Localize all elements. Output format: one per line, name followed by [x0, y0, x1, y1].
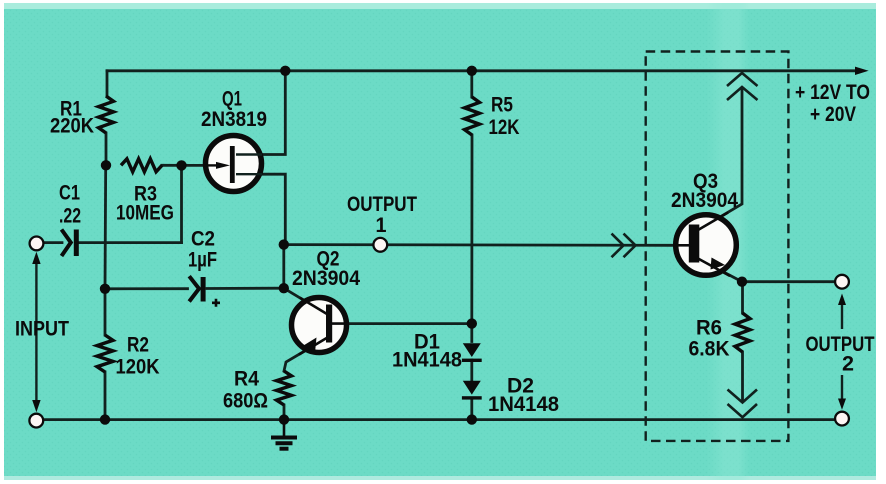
wire C2 right lead — [207, 287, 284, 290]
ground — [271, 420, 297, 449]
wire R1 top lead from rail — [106, 71, 109, 96]
resistor R3 — [116, 159, 174, 225]
svg-text:220K: 220K — [50, 115, 94, 138]
node top rail R5 — [467, 66, 477, 76]
svg-text:INPUT: INPUT — [15, 318, 69, 341]
svg-text:R6: R6 — [696, 317, 722, 340]
wire output1 run to Q3 base — [284, 243, 674, 246]
terminal input top — [30, 237, 44, 251]
chevrons up collector riser — [727, 73, 758, 100]
svg-text:C2: C2 — [191, 228, 215, 251]
svg-text:6.8K: 6.8K — [689, 338, 730, 361]
transistor Q1 2N3819 — [201, 88, 267, 192]
diode D1 1N4148 — [392, 331, 482, 372]
svg-text:2N3819: 2N3819 — [201, 108, 267, 131]
chevrons signal to Q3 — [612, 234, 636, 258]
supply arrow — [855, 67, 869, 75]
svg-text:R4: R4 — [234, 368, 259, 391]
resistor R4 — [223, 368, 292, 413]
svg-text:R5: R5 — [491, 94, 513, 117]
wire R6 top lead — [741, 282, 744, 313]
node Q2 base — [279, 283, 289, 293]
node Q2 collector D1 — [467, 318, 477, 328]
node D2 ground rail — [467, 414, 477, 424]
svg-text:2N3904: 2N3904 — [292, 267, 360, 290]
wire Q2 collector to diode node — [332, 322, 472, 325]
svg-text:1N4148: 1N4148 — [488, 393, 559, 416]
wire C1 input lead — [44, 241, 63, 244]
capacitor C1 — [59, 182, 81, 257]
node output1 — [279, 239, 289, 249]
wire Q2 emitter to R4 — [284, 336, 330, 371]
resistor R1 — [50, 96, 114, 138]
node R2 ground rail — [100, 414, 110, 424]
svg-text:1µF: 1µF — [188, 249, 217, 272]
svg-text:+ 20V: + 20V — [810, 103, 856, 126]
dashed enclosure — [646, 52, 789, 441]
transistor Q3 2N3904 — [671, 170, 738, 276]
wire Q3 emitter to node — [699, 259, 742, 282]
svg-text:12K: 12K — [489, 116, 520, 139]
wire Q1 source lead down to output1 node — [236, 174, 285, 244]
wire gate branch vertical — [180, 165, 183, 242]
wire D2 to ground rail — [470, 399, 473, 420]
transistor Q2 2N3904 — [292, 248, 361, 355]
wire bottom ground rail — [43, 418, 836, 421]
resistor R2 — [97, 334, 160, 379]
wire C1 to gate branch — [79, 241, 182, 244]
svg-text:680Ω: 680Ω — [223, 390, 268, 413]
chevrons down R6 — [728, 390, 758, 418]
resistor R5 — [465, 94, 520, 140]
wire D1 to D2 — [470, 360, 473, 381]
wire R4 bottom to ground rail — [283, 405, 286, 420]
wire R2 bottom to ground rail — [104, 372, 107, 420]
svg-text:C1: C1 — [59, 182, 80, 205]
output2 span arrow — [806, 294, 875, 410]
svg-text:2N3904: 2N3904 — [671, 189, 738, 212]
terminal input bottom — [29, 414, 43, 428]
wire node R1R3 down to C2 node — [104, 165, 107, 288]
terminal output2 top — [835, 275, 849, 289]
wire C2 left lead — [105, 287, 188, 290]
svg-text:1N4148: 1N4148 — [392, 349, 462, 372]
wire output1 node down to C2 node — [282, 245, 285, 289]
wire Q3 collector riser — [699, 89, 742, 230]
svg-text:R2: R2 — [127, 334, 149, 357]
wire R5 top lead — [470, 71, 473, 97]
capacitor C2 — [188, 228, 220, 307]
node R4 ground rail — [279, 414, 289, 424]
input span arrow — [15, 252, 69, 412]
wire R1 bottom lead to node — [105, 133, 108, 165]
terminal output2 bottom — [835, 412, 849, 426]
node R1 R3 — [101, 160, 111, 170]
node C2 left — [100, 284, 110, 294]
node gate — [176, 160, 186, 170]
resistor R6 — [689, 313, 751, 361]
svg-text:+ 12V TO: + 12V TO — [795, 81, 870, 104]
svg-text:.22: .22 — [59, 205, 81, 228]
wire emitter node to output2 — [742, 280, 835, 283]
svg-text:OUTPUT: OUTPUT — [347, 193, 417, 216]
wire collector node to D1 — [470, 324, 473, 342]
wire Q1 drain lead — [236, 71, 285, 155]
svg-text:OUTPUT: OUTPUT — [806, 333, 875, 356]
svg-text:1: 1 — [376, 214, 387, 237]
wire R3 right end to gate node — [162, 164, 182, 167]
node Q3 emitter — [737, 277, 747, 287]
terminal output1 — [373, 238, 387, 252]
wire top supply rail — [107, 69, 856, 72]
wire Q2 base from C2 node — [284, 288, 328, 314]
wire gate lead into Q1 — [182, 164, 229, 167]
wire R5 bottom to collector node — [470, 135, 473, 324]
wire C2 node down to R2 — [104, 289, 107, 335]
wire R6 bottom lead — [741, 352, 744, 401]
svg-text:10MEG: 10MEG — [116, 202, 174, 225]
diode D2 1N4148 — [462, 375, 559, 417]
svg-text:120K: 120K — [116, 356, 160, 379]
node top rail Q1 drain — [280, 66, 290, 76]
svg-text:2: 2 — [842, 353, 854, 376]
